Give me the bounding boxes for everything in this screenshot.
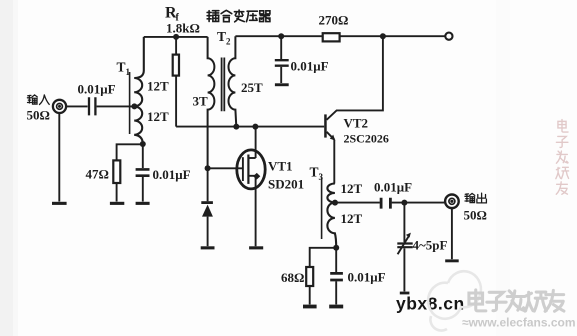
svg-text:T: T (217, 29, 226, 44)
wire 47R to ground (116, 183, 118, 202)
label coupling transformer (fake han) (207, 10, 270, 22)
resistor 47R (113, 160, 120, 183)
node 25T bottom (233, 124, 239, 130)
svg-text:1: 1 (126, 67, 131, 77)
svg-text:50Ω: 50Ω (27, 108, 50, 123)
svg-text:4~5pF: 4~5pF (413, 238, 448, 253)
VT2 emitter arrow (330, 135, 336, 141)
wire 68R ground (309, 286, 311, 304)
transformer T2 primary 3T (208, 37, 215, 168)
svg-text:47Ω: 47Ω (86, 167, 109, 182)
svg-text:1.8kΩ: 1.8kΩ (166, 21, 200, 36)
node T3 bottom (333, 245, 339, 251)
wire C2 to ground (142, 177, 144, 202)
ground 47R (110, 202, 124, 205)
mosfet VT1 gate bar (242, 157, 244, 181)
svg-text:0.01μF: 0.01μF (153, 167, 191, 182)
svg-text:270Ω: 270Ω (319, 13, 349, 28)
wire rail to Rf (175, 37, 177, 55)
svg-text:0.01μF: 0.01μF (291, 59, 329, 74)
label output (fake han) (465, 193, 487, 203)
svg-text:3T: 3T (193, 94, 209, 109)
transistor VT2 base bar (324, 114, 327, 137)
wire output terminal ground (451, 208, 453, 259)
svg-text:0.01μF: 0.01μF (348, 270, 386, 285)
svg-text:0.01μF: 0.01μF (374, 180, 412, 195)
mid wire gate/drain row (176, 126, 324, 128)
svg-text:0.01μF: 0.01μF (78, 82, 116, 97)
node Rf top (173, 34, 179, 40)
mosfet VT1 channel bar (247, 155, 249, 184)
capacitor C6 0.01uF plates (330, 273, 343, 280)
svg-text:50Ω: 50Ω (464, 208, 487, 223)
node gate tee (205, 165, 211, 171)
wire C3 to ground (280, 67, 282, 83)
node T1 tap (131, 103, 137, 109)
transistor VT2 emitter (327, 132, 335, 140)
svg-text:VT1: VT1 (268, 159, 293, 174)
ground VT1 (249, 246, 263, 249)
capacitor C3 0.01uF plates (275, 60, 289, 65)
ground output (445, 259, 459, 262)
diode VD triangle (202, 205, 213, 217)
svg-text:2SC2026: 2SC2026 (344, 132, 389, 146)
svg-text:68Ω: 68Ω (281, 270, 304, 285)
wire tap to C5 (335, 202, 380, 204)
mosfet VT1 drain stub (248, 157, 255, 159)
right faint band (496, 0, 510, 336)
watermark elecfans big chars (469, 290, 564, 311)
wire diode to ground (207, 217, 209, 247)
wire emitter to T3 (333, 140, 335, 184)
svg-text:2: 2 (226, 37, 231, 47)
mosfet VT1 source stub (248, 175, 255, 177)
svg-text:T: T (310, 165, 319, 180)
svg-text:12T: 12T (147, 79, 169, 94)
ground C6 (329, 305, 343, 309)
transformer T1 winding (134, 37, 144, 144)
mosfet VT1 circle (237, 150, 265, 189)
left scan band (0, 0, 13, 336)
diode VD cathode bar (201, 201, 213, 204)
top rail segment 2 (235, 35, 322, 37)
transformer T2 secondary 25T (228, 36, 236, 126)
wire input ground drop (58, 113, 60, 201)
wire 270R to terminal (340, 35, 445, 37)
capacitor C1 0.01uF plates (89, 97, 95, 115)
node VT1 drain (252, 124, 258, 130)
svg-text:3: 3 (319, 172, 324, 182)
wire collector riser (327, 36, 383, 120)
ground 68R (303, 305, 317, 309)
wire rail to C3 (280, 36, 282, 59)
wire C5 to node (392, 202, 445, 204)
watermark right edge faint (556, 120, 569, 195)
wire T1 bottom to C2 (142, 144, 144, 168)
wire input to C1 (66, 105, 87, 107)
node output (401, 200, 407, 206)
node T3 tap (332, 200, 338, 206)
node T1 bottom (140, 141, 146, 147)
capacitor C2 0.01uF plates (136, 169, 150, 175)
svg-text:T: T (117, 60, 126, 75)
ground C3 (275, 83, 289, 86)
transformer T2 core (222, 58, 225, 112)
label input (fake han) (27, 95, 49, 105)
resistor 68R (306, 267, 313, 286)
transformer T3 winding (327, 184, 336, 248)
ground C2 (136, 202, 150, 205)
node bypass cap (278, 33, 284, 39)
trimmer arrow (398, 235, 410, 254)
supply terminal (445, 33, 452, 40)
wire C1 to T1 tap (97, 105, 134, 107)
svg-text:12T: 12T (147, 109, 169, 124)
wire gate (208, 167, 243, 169)
wire source to ground (255, 176, 257, 246)
output terminal J2 (445, 195, 459, 209)
input terminal J1 (53, 100, 66, 113)
ground trimmer (400, 292, 410, 295)
wire gate column to diode (207, 168, 209, 201)
wire T3 bottom to C6 (335, 248, 337, 272)
svg-text:VT2: VT2 (344, 116, 369, 131)
resistor Rf 1.8k (173, 55, 179, 76)
svg-text:SD201: SD201 (268, 177, 304, 192)
ground input (52, 202, 67, 205)
wire T3 bottom to 68R (310, 248, 337, 267)
transformer T3 core (321, 178, 323, 240)
trimmer C7 plates (397, 244, 412, 248)
top rail segment 1 (144, 36, 208, 38)
transformer T1 core (129, 72, 131, 134)
wire node to trimmer (403, 203, 405, 243)
svg-text:12T: 12T (341, 181, 363, 196)
mosfet VT1 arrow (253, 173, 260, 180)
ground diode (201, 246, 215, 249)
svg-text:25T: 25T (241, 80, 263, 95)
wire to 47R (117, 144, 143, 160)
svg-text:≈www.elecfans.com: ≈www.elecfans.com (462, 316, 576, 330)
resistor 270R (323, 33, 340, 41)
wire trimmer to bottom (403, 248, 405, 291)
watermark logo swirl (428, 271, 481, 330)
wire drain (255, 127, 257, 158)
svg-text:12T: 12T (341, 211, 363, 226)
capacitor C5 0.01uF plates (381, 198, 390, 209)
wire C6 ground (335, 281, 337, 304)
node collector branch (380, 33, 386, 39)
wire Rf to mid rail (175, 76, 177, 127)
